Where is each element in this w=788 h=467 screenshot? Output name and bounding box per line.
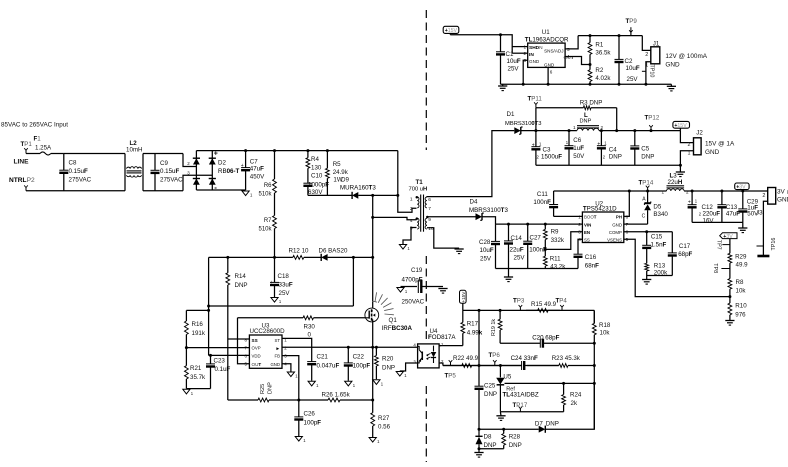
ground C7: [242, 191, 253, 198]
svg-text:Q1: Q1: [389, 317, 398, 324]
svg-text:C21: C21: [317, 354, 329, 361]
resistor R6: [273, 151, 277, 193]
resistor R30: [238, 316, 366, 320]
wire VSENS feedback: [624, 239, 730, 296]
svg-text:SHDN: SHDN: [529, 45, 543, 51]
ground secondary pin10: [455, 249, 464, 254]
svg-text:T1: T1: [416, 179, 424, 186]
svg-text:BOOT: BOOT: [584, 215, 597, 220]
connector J1: [645, 40, 660, 68]
svg-text:D4: D4: [470, 199, 478, 206]
connector J3: [756, 188, 776, 217]
power label +15V at J2: [673, 121, 690, 129]
wire U3 FB pin to R25 row: [282, 356, 299, 400]
capacitor C18: [270, 257, 279, 297]
wire U3 pin1 to C21: [282, 338, 312, 361]
capacitor C3: [531, 131, 540, 166]
svg-text:6: 6: [428, 197, 431, 203]
bridge labels: [214, 150, 240, 192]
svg-text:C2: C2: [625, 58, 633, 65]
bridge diode D2d: [209, 179, 216, 185]
svg-text:C16: C16: [585, 254, 597, 261]
wire U1 pin1: [512, 46, 528, 48]
svg-text:U5: U5: [503, 374, 511, 381]
wire D6 to drain: [328, 256, 373, 258]
svg-text:VDD: VDD: [252, 354, 261, 359]
resistor R8: [728, 269, 732, 297]
svg-text:R30: R30: [304, 324, 316, 331]
svg-text:47uF: 47uF: [726, 210, 740, 217]
svg-text:0.047uF: 0.047uF: [317, 362, 340, 369]
svg-text:R22 49.9: R22 49.9: [453, 355, 479, 362]
diode D4 MBRS3100T3: [476, 213, 484, 220]
ground C21: [308, 381, 319, 388]
wire U4 pin2 to R22 row: [439, 363, 443, 366]
wire source column: [372, 320, 374, 401]
capacitor C28: [491, 224, 500, 268]
capacitor C2: [615, 36, 624, 85]
svg-text:C: C: [642, 214, 646, 220]
wire to bridge AC1: [183, 154, 196, 167]
svg-text:C7: C7: [250, 159, 258, 166]
ground R21 C23: [183, 389, 194, 396]
svg-text:2: 2: [578, 222, 581, 227]
svg-text:R28: R28: [509, 434, 521, 441]
capacitor C4: [597, 131, 606, 166]
wire HV top rail: [196, 150, 397, 152]
IC U1 TL1963ADCQR: [523, 29, 573, 75]
wire NTRL row: [26, 190, 125, 192]
svg-text:C28: C28: [479, 239, 491, 246]
ground R27: [369, 438, 380, 445]
diode D6: [321, 254, 327, 261]
svg-text:C20 68pF: C20 68pF: [532, 335, 559, 342]
resistor R13: [645, 263, 649, 275]
capacitor C9: [151, 154, 160, 191]
svg-text:2: 2: [410, 206, 413, 212]
wire secondary gnd rail: [496, 268, 579, 270]
wire T1 pin9 to D4: [427, 216, 476, 218]
svg-text:1: 1: [410, 196, 413, 202]
svg-text:R21: R21: [190, 365, 202, 372]
capacitor C13: [717, 191, 726, 222]
wire L2 to C9 bottom: [143, 190, 183, 192]
svg-text:R15 49.9: R15 49.9: [531, 301, 557, 308]
capacitor C25: [475, 386, 484, 429]
wire J3 pin1 down: [763, 201, 767, 255]
svg-text:DNP: DNP: [546, 421, 559, 428]
svg-text:275VAC: 275VAC: [160, 176, 183, 183]
svg-text:R19 1k: R19 1k: [491, 319, 497, 336]
svg-text:36.5k: 36.5k: [595, 50, 611, 57]
svg-text:PH: PH: [616, 215, 622, 220]
wire R17 to opto: [439, 345, 463, 347]
wire 12V gnd rail: [501, 83, 672, 85]
svg-text:130: 130: [311, 164, 322, 171]
svg-text:0: 0: [308, 332, 312, 339]
bridge diode D2a: [193, 158, 200, 164]
test point TP4: [560, 305, 564, 310]
ground 12V rail left: [498, 86, 507, 91]
wire COMP row: [624, 231, 673, 233]
diode D7 DNP: [539, 426, 546, 433]
wire R28 bottom: [479, 448, 504, 450]
wire R3 left leg: [535, 108, 537, 131]
svg-text:▸: ▸: [276, 346, 280, 352]
svg-text:+15V: +15V: [461, 291, 466, 303]
svg-text:MBRS3100T3: MBRS3100T3: [469, 207, 508, 214]
svg-text:15V @ 1A: 15V @ 1A: [705, 141, 735, 148]
svg-text:TP1: TP1: [21, 141, 33, 148]
svg-text:NTRLP2: NTRLP2: [9, 177, 35, 184]
svg-text:R17: R17: [467, 321, 479, 328]
svg-text:TP11: TP11: [528, 96, 543, 103]
wire EN jog: [545, 232, 582, 250]
capacitor C23: [206, 355, 215, 388]
svg-text:25V: 25V: [279, 290, 291, 297]
capacitor C17: [668, 232, 677, 276]
svg-text:RB06-T: RB06-T: [218, 168, 240, 175]
resistor R26: [299, 398, 373, 402]
svg-text:16V: 16V: [703, 217, 715, 224]
resistor R19: [498, 310, 502, 343]
svg-text:100pF: 100pF: [304, 420, 322, 427]
capacitor C5: [630, 131, 639, 166]
wire R3 right leg: [616, 108, 618, 131]
svg-text:4.99k: 4.99k: [467, 330, 483, 337]
svg-text:J1: J1: [653, 40, 660, 47]
svg-text:TP3: TP3: [513, 297, 525, 304]
heat rays Q1: [372, 292, 394, 315]
resistor R10: [728, 297, 732, 320]
wire V2 column: [478, 310, 480, 386]
wire 3V gnd rail: [692, 221, 743, 223]
svg-text:DNP: DNP: [484, 391, 497, 398]
svg-text:R13: R13: [654, 263, 666, 270]
wire U5 gnd row: [500, 411, 563, 413]
svg-text:COMP: COMP: [609, 230, 622, 235]
svg-text:1uF: 1uF: [573, 145, 584, 152]
wire HV rail drop to T1 pin2: [398, 151, 417, 213]
wire GND pin7 to D5: [624, 223, 648, 225]
wire VDD loop bottom: [209, 305, 354, 307]
wire U1 pin5 jog: [565, 36, 578, 49]
svg-text:+3V: +3V: [723, 234, 733, 240]
wire J1 pin1 to gnd: [646, 62, 651, 85]
svg-text:1: 1: [523, 44, 526, 49]
svg-text:2: 2: [645, 52, 648, 58]
capacitor C27: [523, 224, 532, 268]
svg-text:J2: J2: [696, 130, 703, 137]
ground C19 primary: [397, 288, 408, 295]
capacitor C14: [504, 224, 513, 268]
wire U1 gnd pin3: [523, 60, 528, 84]
wire R16 branch: [186, 309, 208, 311]
svg-text:43.2k: 43.2k: [550, 263, 566, 270]
svg-text:+: +: [214, 150, 218, 157]
resistor R12: [209, 256, 322, 260]
wire U3 pin8 from R14: [228, 338, 250, 340]
svg-text:IRFBC30A: IRFBC30A: [382, 325, 413, 332]
svg-text:C8: C8: [69, 160, 77, 167]
capacitor C20: [500, 339, 594, 348]
svg-text:R11: R11: [550, 256, 561, 263]
svg-text:4700pF: 4700pF: [402, 277, 423, 284]
ground comp: [642, 280, 651, 285]
svg-text:DNP: DNP: [484, 442, 497, 449]
resistor R2: [588, 65, 592, 85]
svg-text:C27: C27: [530, 234, 542, 241]
test point TP1: [24, 148, 28, 153]
test point TP7: [722, 244, 730, 246]
svg-text:35.7k: 35.7k: [190, 374, 206, 381]
test point TP17: [519, 406, 523, 411]
power label +3V rail: [735, 183, 749, 191]
svg-text:10uF: 10uF: [507, 58, 521, 65]
IC U2 TPS54231D: [578, 201, 628, 243]
svg-text:D6 BAS20: D6 BAS20: [319, 248, 348, 255]
svg-text:C15: C15: [651, 234, 663, 241]
capacitor C8: [59, 154, 68, 191]
capacitor C24: [522, 361, 559, 370]
svg-text:OVP: OVP: [252, 346, 261, 351]
ground C19 secondary: [438, 289, 447, 294]
wire J1 pin2: [642, 36, 651, 51]
svg-text:9: 9: [428, 217, 431, 223]
resistor R5: [326, 151, 330, 196]
svg-text:R4: R4: [311, 156, 319, 163]
svg-text:C11: C11: [537, 191, 548, 198]
svg-text:D5: D5: [653, 203, 661, 210]
svg-text:R24: R24: [570, 392, 582, 399]
wire T1 pin10 to ground: [427, 228, 459, 248]
svg-text:-: -: [214, 183, 217, 192]
svg-text:C24 33nF: C24 33nF: [511, 355, 538, 362]
wire Ref row: [505, 382, 595, 384]
resistor R29: [728, 253, 732, 268]
svg-text:D9: D9: [341, 177, 349, 184]
optocoupler U4 FOD817A: [413, 328, 456, 368]
svg-text:IN: IN: [529, 52, 534, 58]
resistor R18: [592, 310, 596, 429]
wire drain column: [372, 195, 374, 308]
resistor R3 DNP: [536, 106, 617, 110]
svg-text:R6: R6: [264, 183, 272, 189]
svg-text:2: 2: [688, 142, 691, 148]
svg-text:10: 10: [428, 226, 434, 232]
capacitor C10: [303, 183, 312, 196]
wire SS to C16: [578, 239, 582, 254]
wire 15V rail right: [599, 130, 680, 132]
wire U3 pin2 row to opto: [282, 346, 418, 348]
svg-text:GND: GND: [270, 362, 280, 367]
svg-text:TP10: TP10: [648, 65, 654, 78]
svg-text:10mH: 10mH: [126, 146, 143, 153]
svg-text:33uF: 33uF: [279, 282, 293, 289]
resistor R9: [543, 224, 547, 249]
wire BOOT row: [554, 215, 583, 217]
svg-text:TP7: TP7: [715, 240, 721, 250]
svg-text:10uF: 10uF: [480, 247, 494, 254]
svg-text:R1: R1: [595, 41, 603, 48]
diode D1 MBRS3100T3: [514, 127, 522, 134]
ground J2: [676, 172, 685, 177]
svg-text:332k: 332k: [551, 237, 565, 244]
wire U1 input rail: [450, 35, 512, 54]
svg-text:U1: U1: [542, 29, 550, 36]
wire D9 to primary node: [358, 194, 398, 196]
svg-text:J3: J3: [756, 210, 763, 217]
wire 12V out rail: [578, 35, 642, 37]
test point TP9: [629, 30, 633, 35]
wire 15V gnd rail: [536, 164, 681, 166]
svg-text:2: 2: [686, 189, 689, 194]
svg-text:TL431AIDBZ: TL431AIDBZ: [503, 392, 539, 399]
svg-text:TP4: TP4: [556, 297, 568, 304]
svg-text:C5: C5: [641, 146, 649, 153]
svg-text:85VAC to 265VAC Input: 85VAC to 265VAC Input: [1, 122, 68, 129]
svg-text:TP9: TP9: [626, 18, 638, 25]
svg-text:4: 4: [410, 218, 413, 224]
wire U1 gnd pin6: [547, 67, 549, 84]
wire PH pin rise: [624, 191, 630, 216]
resistor R23: [527, 364, 594, 368]
wire VDD loop left: [208, 257, 210, 355]
resistor R20: [375, 347, 379, 379]
wire L2 to C9 top: [143, 153, 183, 155]
wire U1 pin4 to divider: [565, 57, 590, 65]
capacitor C26: [294, 400, 303, 436]
svg-text:FB: FB: [275, 354, 281, 359]
svg-text:C22: C22: [353, 354, 365, 361]
svg-text:GND: GND: [612, 222, 622, 227]
svg-text:25V: 25V: [514, 255, 526, 262]
capacitor C1: [496, 35, 505, 85]
ground U4 emitter: [396, 372, 407, 379]
ground secondary rail: [504, 277, 513, 282]
svg-text:GND: GND: [665, 61, 680, 68]
capacitor C15: [642, 232, 651, 264]
svg-text:R23 45.3k: R23 45.3k: [552, 355, 581, 362]
svg-text:1500uF: 1500uF: [541, 153, 562, 160]
svg-text:250VAC: 250VAC: [402, 299, 425, 306]
svg-text:TP14: TP14: [639, 180, 654, 187]
svg-text:976: 976: [735, 312, 746, 319]
svg-text:TP5: TP5: [445, 373, 457, 380]
power label +15V at U1: [443, 26, 459, 34]
svg-text:+15V: +15V: [674, 123, 687, 129]
wire TP3 row: [463, 309, 595, 311]
resistor R24: [562, 383, 566, 411]
svg-text:FOD817A: FOD817A: [428, 334, 456, 341]
wire clamp bottom: [308, 194, 352, 196]
capacitor C12: [688, 191, 697, 222]
wire to bridge AC2: [183, 175, 212, 191]
capacitor C29: [738, 191, 747, 222]
svg-text:UCC28600D: UCC28600D: [250, 328, 286, 335]
svg-text:C10: C10: [311, 173, 323, 180]
test point TP5: [449, 360, 453, 365]
transformer T1: [409, 179, 434, 232]
svg-text:C26: C26: [304, 411, 316, 418]
svg-text:+: +: [688, 200, 691, 206]
ground U5: [496, 416, 505, 421]
svg-text:1: 1: [688, 150, 691, 156]
svg-text:49.9: 49.9: [736, 262, 749, 269]
svg-text:C17: C17: [679, 243, 691, 250]
power label +15V flag at R17: [460, 290, 467, 303]
svg-text:2k: 2k: [571, 400, 578, 407]
wire PH row: [554, 190, 667, 192]
svg-text:4.02k: 4.02k: [595, 75, 611, 82]
svg-text:EN: EN: [584, 230, 590, 235]
svg-text:12V @ 100mA: 12V @ 100mA: [665, 53, 707, 60]
isolation boundary dashed line upper: [425, 10, 427, 150]
svg-text:VIN: VIN: [584, 222, 591, 227]
svg-text:+: +: [241, 163, 244, 169]
svg-text:C14: C14: [511, 235, 523, 242]
capacitor C21: [307, 361, 316, 381]
svg-text:10uF: 10uF: [626, 65, 640, 72]
test point TP6: [493, 360, 497, 365]
wire 3V rail: [684, 190, 768, 192]
svg-text:R12 10: R12 10: [289, 248, 310, 255]
test point TP2: [24, 185, 28, 190]
svg-text:D7: D7: [535, 421, 543, 428]
svg-text:1.25A: 1.25A: [35, 144, 52, 151]
ground primary pin5: [399, 245, 410, 252]
svg-text:510k: 510k: [258, 192, 272, 198]
svg-text:450V: 450V: [250, 174, 265, 181]
connector J2: [688, 130, 704, 157]
power label +3V flag TP7: [720, 233, 737, 240]
svg-text:DNP: DNP: [235, 282, 248, 289]
svg-text:25V: 25V: [508, 66, 520, 73]
svg-text:191k: 191k: [192, 330, 206, 337]
IC U5 TL431AIDBZ: [496, 366, 539, 412]
svg-text:R2: R2: [595, 67, 603, 74]
common-mode choke L2: [125, 140, 143, 191]
svg-text:0.15uF: 0.15uF: [69, 168, 88, 175]
test point TP11: [534, 102, 538, 107]
ground D8: [474, 453, 483, 458]
svg-text:GND: GND: [544, 62, 555, 67]
wire VIN row: [496, 223, 583, 225]
resistor R25: [228, 398, 299, 402]
ground 3V rail: [738, 228, 747, 233]
svg-text:10k: 10k: [600, 330, 611, 337]
svg-text:22uF: 22uF: [510, 247, 524, 254]
svg-text:D2: D2: [218, 160, 226, 167]
svg-text:TP12: TP12: [645, 115, 660, 122]
wire 15V rail: [521, 130, 577, 132]
svg-text:220uF: 220uF: [703, 210, 721, 217]
svg-text:+3V: +3V: [736, 185, 746, 191]
wire U1 pin2: [512, 52, 528, 54]
svg-text:F1: F1: [34, 136, 42, 143]
test point TP12: [649, 125, 653, 130]
svg-text:B340: B340: [653, 211, 668, 218]
svg-text:DNP: DNP: [382, 365, 395, 372]
svg-text:R29: R29: [735, 254, 747, 261]
bridge diode D2c: [193, 179, 200, 185]
diode D5 B340: [642, 191, 669, 224]
resistor R22: [443, 364, 522, 368]
capacitor C11: [549, 191, 558, 216]
svg-text:100pF: 100pF: [353, 362, 371, 369]
svg-text:R8: R8: [736, 279, 744, 286]
wire U3 gnd pin: [282, 364, 291, 372]
